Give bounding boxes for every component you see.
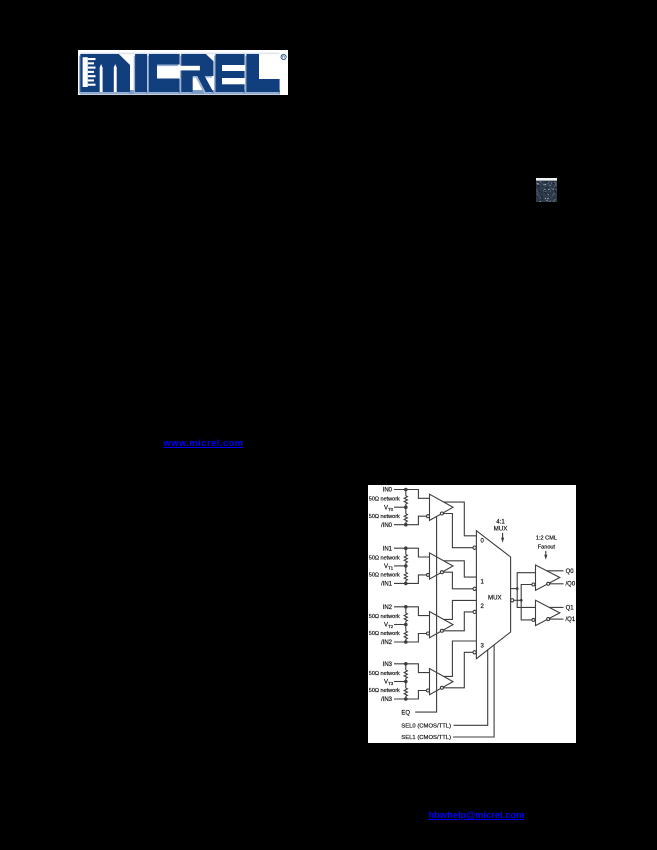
svg-text:IN0: IN0: [383, 488, 393, 494]
inverting input bubble U3: [427, 632, 430, 635]
wire V_T0 stub: [394, 506, 406, 508]
wire V_T1 stub: [394, 565, 406, 567]
inverting input bubble U2: [427, 573, 430, 576]
MUX inverting input bubble 1B: [473, 587, 476, 590]
svg-text:50Ω network: 50Ω network: [369, 573, 400, 579]
junction /IN1: [404, 582, 408, 586]
svg-text:SEL1 (CMOS/TTL): SEL1 (CMOS/TTL): [401, 735, 451, 741]
junction V_T3: [404, 680, 408, 684]
wire buffer U3 inverted output to MUX input 2B: [443, 612, 473, 631]
wire Q1 output: [549, 606, 563, 608]
svg-text:50Ω network: 50Ω network: [369, 555, 400, 561]
U6 inverting input bubble: [532, 583, 535, 586]
svg-text:/IN0: /IN0: [381, 523, 393, 529]
wire buffer U1 true output to MUX input 0: [444, 502, 477, 536]
wire buffer U2 inverted output to MUX input 1B: [443, 572, 473, 589]
wire IN1 to buffer noninverting input: [394, 548, 429, 557]
MUX inverting input bubble 0B: [473, 546, 476, 549]
wire IN3 to buffer noninverting input: [394, 664, 429, 673]
resistor R1b 50ohm: [404, 573, 407, 581]
U7 inverted output bubble: [547, 618, 550, 621]
wire Q0 output: [547, 570, 564, 572]
wire buffer U1 inverted output to MUX input 0B: [443, 514, 473, 548]
junction IN0: [404, 488, 408, 492]
resistor R0a 50ohm: [404, 496, 407, 504]
output buffer U6 (Q0): [536, 565, 560, 590]
wire V_T2 stub: [394, 624, 406, 626]
svg-text:/Q0: /Q0: [566, 582, 576, 588]
svg-text:/IN1: /IN1: [381, 582, 393, 588]
junction V_T1: [404, 564, 408, 568]
wire IN2 to buffer noninverting input: [394, 607, 429, 616]
link www.micrel.com: [164, 438, 244, 448]
resistor R2b 50ohm: [404, 631, 407, 639]
junction /IN0: [404, 523, 408, 527]
junction IN1: [404, 546, 408, 550]
circuit block diagram: [368, 485, 576, 743]
wire SEL0 to MUX: [454, 650, 488, 725]
junction MUX true output: [516, 587, 519, 590]
svg-text:50Ω network: 50Ω network: [369, 614, 400, 620]
svg-text:T1: T1: [388, 566, 394, 571]
junction V_T2: [404, 623, 408, 627]
MUX inverting input bubble 3B: [473, 651, 476, 654]
svg-text:Q0: Q0: [566, 569, 575, 575]
wire fanout inverted bus: [521, 585, 532, 620]
svg-text:MUX: MUX: [488, 594, 502, 601]
wire termination ladder vertical segments input 1: [405, 548, 407, 554]
noise thumbnail image: [536, 178, 557, 202]
wire V_T3 stub: [394, 681, 406, 683]
svg-text:IN3: IN3: [383, 662, 393, 668]
wire EQ to buffers: [415, 517, 436, 713]
wire MUX inverted output: [514, 599, 521, 601]
wire /IN1 to buffer inverting input: [394, 575, 427, 584]
wire /Q0 output: [550, 583, 564, 585]
link hbwhelp@micrel.com: [429, 810, 525, 820]
svg-text:/Q1: /Q1: [566, 617, 576, 623]
svg-text:50Ω network: 50Ω network: [369, 497, 400, 503]
wire termination ladder vertical segments input 3: [405, 664, 407, 670]
resistor R0b 50ohm: [404, 514, 407, 522]
inverting input bubble U1: [427, 515, 430, 518]
svg-text:T3: T3: [388, 681, 394, 686]
wire IN0 to buffer noninverting input: [394, 490, 429, 499]
junction IN3: [404, 662, 408, 666]
svg-text:EQ: EQ: [401, 710, 410, 716]
svg-text:1:2 CML: 1:2 CML: [536, 536, 557, 542]
svg-text:T2: T2: [388, 624, 394, 629]
MUX inverting input bubble 2B: [473, 610, 476, 613]
svg-text:SEL0 (CMOS/TTL): SEL0 (CMOS/TTL): [401, 723, 451, 729]
resistor R3a 50ohm: [404, 670, 407, 678]
resistor R2a 50ohm: [404, 613, 407, 621]
inverted output bubble U3: [440, 629, 443, 632]
output buffer U7 (Q1): [536, 600, 560, 625]
input buffer U2 (IN1): [430, 553, 454, 579]
junction /IN3: [404, 697, 408, 701]
svg-text:/IN3: /IN3: [381, 697, 393, 703]
svg-text:50Ω network: 50Ω network: [369, 688, 400, 694]
input buffer U3 (IN2): [430, 612, 454, 638]
wire buffer U3 true output to MUX input 2: [444, 600, 477, 619]
input buffer U4 (IN3): [430, 669, 454, 695]
wire termination ladder vertical segments input 2: [405, 607, 407, 613]
inverted output bubble U1: [440, 512, 443, 515]
wire /IN3 to buffer inverting input: [394, 691, 427, 700]
svg-text:T0: T0: [388, 507, 394, 512]
Micrel logo: [78, 50, 288, 95]
wire buffer U4 true output to MUX input 3: [444, 641, 477, 676]
svg-text:50Ω network: 50Ω network: [369, 514, 400, 520]
wire termination ladder vertical segments input 0: [405, 490, 407, 496]
wire /Q1 output: [550, 618, 564, 620]
U7 inverting input bubble: [532, 618, 535, 621]
wire /IN0 to buffer inverting input: [394, 516, 427, 525]
inverted output bubble U4: [440, 686, 443, 689]
svg-text:50Ω network: 50Ω network: [369, 631, 400, 637]
svg-text:MUX: MUX: [494, 526, 508, 533]
inverting input bubble U4: [427, 689, 430, 692]
inverted output bubble U2: [440, 571, 443, 574]
junction MUX inverted output: [520, 599, 523, 602]
svg-text:4:1: 4:1: [496, 518, 505, 525]
svg-text:/IN2: /IN2: [381, 640, 393, 646]
svg-text:50Ω network: 50Ω network: [369, 671, 400, 677]
junction IN2: [404, 605, 408, 609]
U6 inverted output bubble: [547, 582, 550, 585]
resistor R1a 50ohm: [404, 555, 407, 563]
junction V_T0: [404, 505, 408, 509]
MUX inverted output bubble: [511, 599, 514, 602]
wire MUX true output: [511, 588, 518, 590]
wire buffer U4 inverted output to MUX input 3B: [443, 652, 473, 688]
wire buffer U2 true output to MUX input 1: [444, 561, 477, 577]
svg-text:Q1: Q1: [566, 605, 575, 611]
input buffer U1 (IN0): [430, 494, 454, 520]
svg-text:IN1: IN1: [383, 546, 393, 552]
wire fanout true bus: [517, 573, 535, 608]
svg-text:IN2: IN2: [383, 605, 393, 611]
wire SEL1 to MUX: [453, 645, 494, 737]
wire /IN2 to buffer inverting input: [394, 634, 427, 643]
resistor R3b 50ohm: [404, 688, 407, 696]
junction /IN2: [404, 640, 408, 644]
svg-text:Fanout: Fanout: [538, 545, 556, 551]
4:1 multiplexer U5 body: [476, 531, 510, 659]
